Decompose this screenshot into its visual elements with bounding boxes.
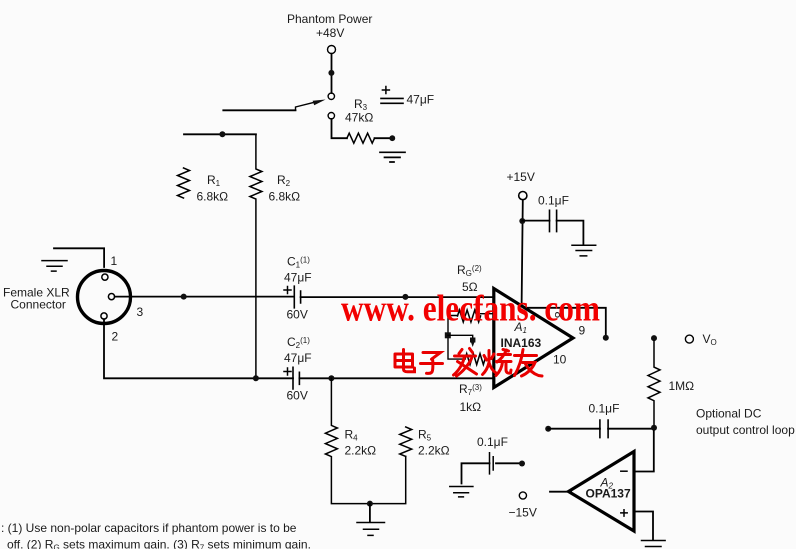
junction dot R2 bottom — [253, 375, 259, 381]
op-amp A2 OPA137 triangle — [569, 452, 635, 532]
wire RG right lead to A1 — [481, 313, 493, 315]
wire C1 to INA163 input — [301, 296, 493, 298]
wire switch pole to left — [223, 109, 295, 111]
char you — [515, 350, 543, 377]
plus sign A2 — [621, 510, 627, 516]
junction dot R5 tap — [402, 294, 408, 300]
wire to bypass cap — [522, 220, 549, 222]
XLR pin 2 — [101, 313, 107, 319]
svg-text:6.8kΩ: 6.8kΩ — [197, 190, 229, 204]
wire A2 output — [550, 491, 571, 493]
char zi — [421, 353, 443, 374]
XLR pin 1 — [102, 274, 108, 280]
wire cap left to ground — [462, 463, 490, 483]
wire A2 inverting input up to node — [634, 431, 654, 472]
wire XLR pin3 to C1 — [115, 296, 293, 298]
junction dot R4 tap — [328, 375, 334, 381]
svg-text:60V: 60V — [287, 389, 308, 403]
svg-text:47μF: 47μF — [284, 271, 312, 285]
junction dot on +48V wire — [328, 70, 334, 76]
svg-text:10: 10 — [553, 353, 567, 367]
svg-text:6.8kΩ: 6.8kΩ — [269, 190, 301, 204]
svg-text:www. elecfans. com: www. elecfans. com — [341, 289, 600, 330]
junction dot +15V — [519, 218, 525, 224]
char shao — [483, 350, 512, 376]
svg-text:0.1μF: 0.1μF — [589, 402, 620, 416]
junction dot output node — [603, 335, 609, 341]
junction dot 1M top — [651, 335, 657, 341]
svg-text:2.2kΩ: 2.2kΩ — [418, 444, 450, 458]
wire -15V cap right — [496, 462, 520, 464]
ground below R4/R5 — [357, 523, 385, 536]
junction dot R4/R5 ground — [367, 501, 373, 507]
wire R3 to ground node — [375, 137, 391, 139]
svg-text:2.2kΩ: 2.2kΩ — [345, 444, 377, 458]
wire cap to 1M bottom node — [608, 428, 654, 430]
terminal +15V — [519, 192, 527, 200]
wire XLR pin2 down and right to C2 — [104, 319, 293, 378]
svg-text:0.1μF: 0.1μF — [538, 194, 569, 208]
wire +15V to A1 top — [522, 200, 523, 306]
switch S1 bottom contact — [328, 113, 334, 119]
wire R7 right lead to A1 — [485, 358, 493, 360]
ground below R3 — [380, 152, 405, 162]
capacitor 0.1uF plates (+15V bypass) — [550, 210, 557, 231]
junction dot R1 bottom tap — [181, 294, 187, 300]
plus sign C2 — [284, 368, 291, 375]
wire +48V to switch — [331, 54, 333, 93]
svg-text:off. (2) RG sets maximum gain.: off. (2) RG sets maximum gain. (3) R7 se… — [7, 538, 311, 549]
connector J1 Female XLR body — [78, 271, 131, 324]
capacitor C2 plates — [293, 367, 299, 389]
junction square RG tap — [445, 332, 451, 338]
resistor RG zigzag — [458, 310, 481, 322]
svg-text:47μF: 47μF — [284, 351, 312, 365]
capacitor 0.1uF feedback plates — [600, 420, 608, 438]
XLR pin 3 — [108, 294, 114, 300]
ground A2 plus input — [642, 541, 666, 547]
junction dot R3 right — [389, 135, 395, 141]
junction dot top rail — [219, 131, 225, 137]
svg-text:1: 1 — [111, 254, 118, 268]
plus sign C1 — [284, 287, 291, 294]
wiper arm to R7 — [448, 335, 473, 339]
svg-text:Optional DC: Optional DC — [696, 407, 762, 421]
wire switch bottom to R3 — [332, 119, 347, 138]
ground +15V bypass — [572, 245, 596, 256]
svg-text:0.1μF: 0.1μF — [477, 435, 508, 449]
svg-text:INA163: INA163 — [501, 336, 542, 350]
ground -15V bypass — [450, 487, 473, 497]
resistor R7 zigzag — [465, 354, 485, 365]
svg-text:OPA137: OPA137 — [586, 487, 631, 501]
junction dot 1M bottom — [651, 425, 657, 431]
junction dot -15V node — [519, 461, 525, 467]
resistor R5 (no top lead) — [400, 427, 412, 456]
capacitor 47uF plates — [381, 98, 403, 103]
ground near XLR — [42, 261, 67, 272]
wire A2 noninverting input to ground — [634, 512, 653, 541]
wire cap to ground — [557, 221, 584, 244]
wire pin8 sense to output node — [525, 308, 605, 335]
wiper arrowhead onto R7 — [470, 340, 475, 348]
terminal +48V — [328, 46, 336, 54]
capacitor 0.1uF -15V plates — [490, 453, 494, 474]
svg-text:Phantom Power: Phantom Power — [287, 12, 372, 26]
svg-text:output control loop: output control loop — [696, 423, 795, 437]
svg-text:2: 2 — [112, 330, 119, 344]
switch S1 top contact — [328, 93, 334, 99]
char dian — [395, 350, 415, 372]
svg-text:47μF: 47μF — [407, 93, 435, 107]
resistor R6 1M with leads — [648, 341, 660, 425]
terminal -15V — [519, 492, 526, 499]
wire feedback left to cap — [548, 428, 600, 430]
svg-text:60V: 60V — [287, 308, 308, 322]
capacitor C1 plates — [294, 286, 300, 308]
wire C2 to INA163 input — [299, 377, 493, 379]
svg-text:+48V: +48V — [316, 26, 344, 40]
resistor RG leads — [448, 316, 465, 360]
resistor R2 with leads — [250, 134, 262, 378]
char fa — [454, 349, 477, 377]
svg-text:1MΩ: 1MΩ — [669, 379, 695, 393]
svg-text:Connector: Connector — [11, 298, 66, 312]
switch S1 lever arm with arrowhead — [296, 103, 314, 111]
plus sign 47uF — [382, 87, 389, 94]
resistor R4 with leads — [325, 378, 405, 503]
terminal VO — [685, 335, 693, 343]
op-amp A1 INA163 triangle — [494, 289, 573, 388]
svg-text:+15V: +15V — [507, 170, 535, 184]
svg-text:−15V: −15V — [509, 506, 537, 520]
svg-text:3: 3 — [137, 305, 144, 319]
wire XLR ground arm — [54, 248, 104, 267]
ground stub below R4/R5 — [369, 504, 371, 522]
minus sign A2 — [621, 470, 627, 472]
junction dot feedback left — [545, 426, 551, 432]
watermark chinese 电子发烧友 — [395, 349, 542, 377]
resistor R3 — [347, 133, 375, 143]
wire top rail R1-R2 — [184, 133, 256, 135]
resistor R1 (floating zigzag) — [178, 168, 190, 198]
svg-text:1kΩ: 1kΩ — [460, 400, 482, 414]
svg-text:47kΩ: 47kΩ — [345, 111, 373, 125]
svg-text:: (1) Use non-polar capacitors: : (1) Use non-polar capacitors if phanto… — [1, 521, 297, 535]
